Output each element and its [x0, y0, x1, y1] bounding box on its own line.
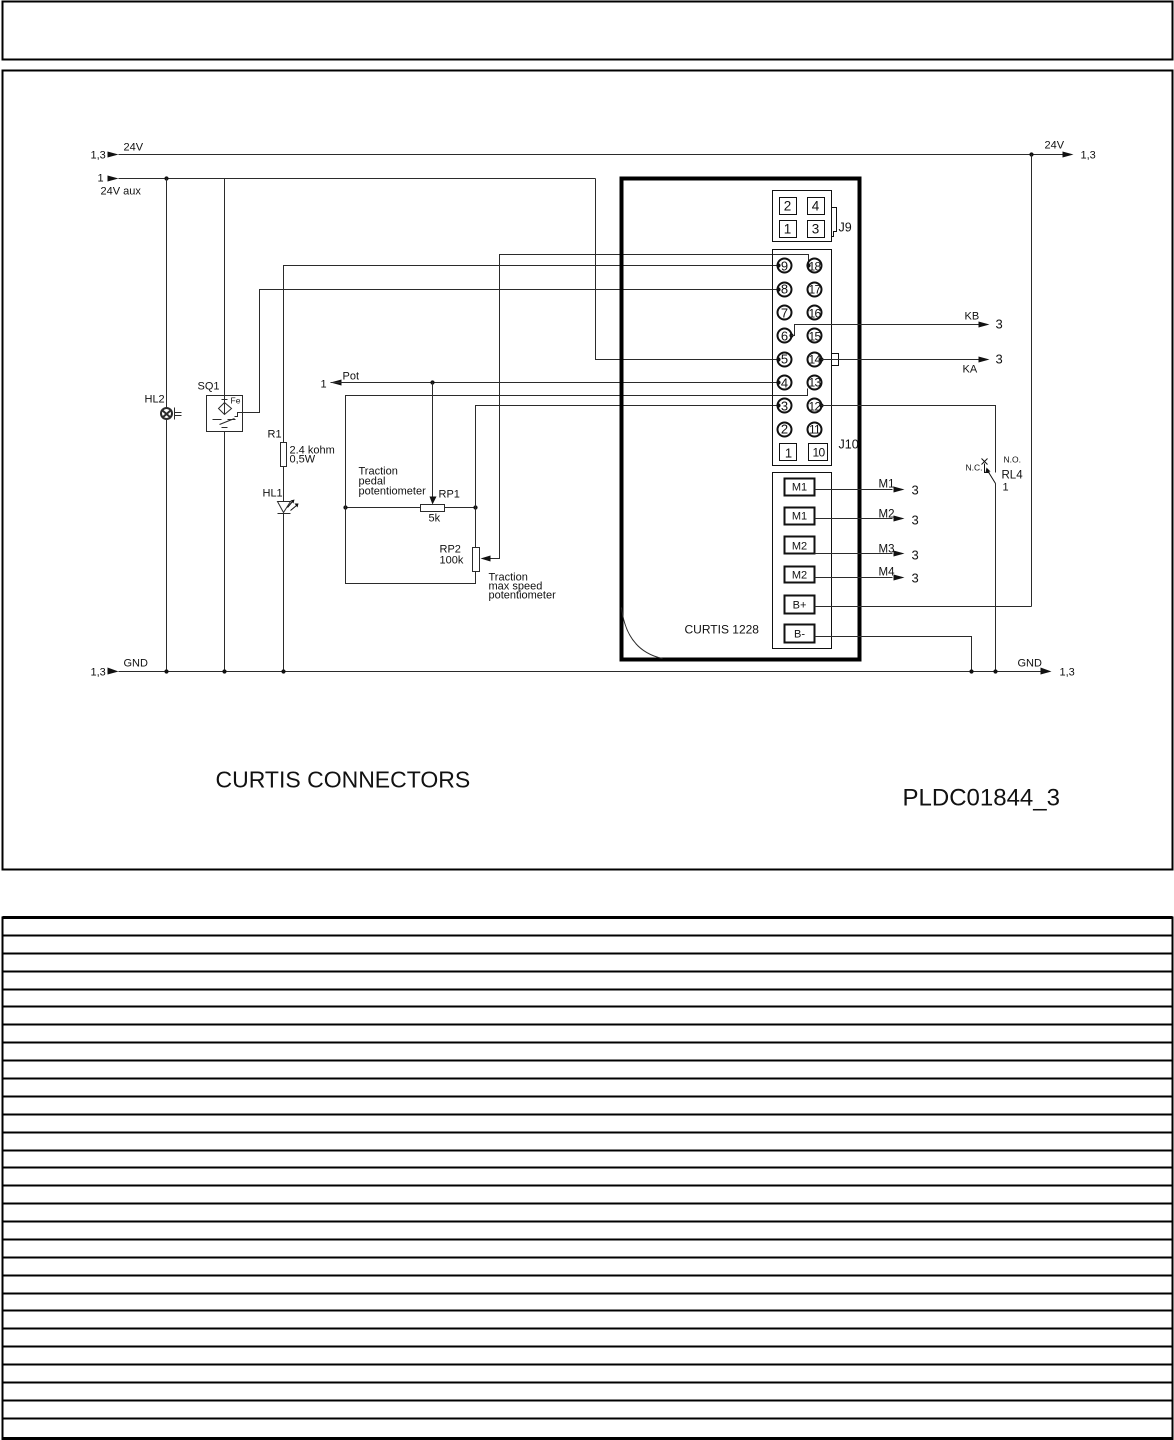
svg-text:CURTIS 1228: CURTIS 1228: [685, 623, 760, 637]
pin J10-5: [778, 353, 792, 367]
pin J10-4: [778, 376, 792, 390]
svg-text:3: 3: [996, 317, 1003, 332]
svg-text:1,3: 1,3: [91, 150, 106, 162]
wire output M2: [815, 518, 893, 520]
pin J10-2: [778, 423, 792, 437]
svg-text:M3: M3: [879, 544, 895, 556]
svg-text:16: 16: [809, 307, 822, 321]
wire B- to GND: [815, 637, 972, 672]
pin J9-4: [808, 198, 825, 215]
svg-text:13: 13: [809, 376, 822, 390]
svg-text:HL2: HL2: [145, 394, 165, 406]
svg-text:0,5W: 0,5W: [290, 454, 316, 466]
pin J10-14: [808, 353, 822, 367]
svg-text:1: 1: [784, 222, 792, 237]
wire B+: [815, 606, 1032, 608]
junction HL2/GND: [164, 669, 168, 673]
svg-text:HL1: HL1: [263, 488, 283, 500]
wire output M4: [815, 577, 893, 579]
svg-text:3: 3: [812, 222, 820, 237]
lamp HL2: [161, 408, 172, 419]
svg-text:B-: B-: [794, 629, 805, 641]
svg-text:B+: B+: [793, 600, 807, 612]
terminal M2 box: [785, 537, 815, 554]
svg-text:J9: J9: [839, 221, 852, 235]
pin J10-9: [778, 259, 792, 273]
svg-text:3: 3: [912, 483, 919, 498]
wire R1 to HL1: [283, 467, 285, 502]
svg-text:potentiometer: potentiometer: [489, 590, 557, 602]
wire pin12 to RL4: [822, 406, 996, 473]
wire SQ1 to pin8: [243, 290, 778, 413]
pin J9-2: [780, 198, 797, 215]
junction RL4/GND: [993, 669, 997, 673]
terminal M1 box: [785, 479, 815, 496]
pin J10-11: [808, 423, 822, 437]
svg-text:6: 6: [781, 329, 788, 344]
wire RP2 wiper from pin18: [485, 255, 809, 559]
svg-text:PLDC01844_3: PLDC01844_3: [903, 785, 1060, 812]
node 24V rail: [119, 154, 1063, 156]
svg-text:R1: R1: [268, 429, 282, 441]
svg-text:2: 2: [781, 422, 788, 437]
svg-text:3: 3: [912, 548, 919, 563]
svg-text:RL4: RL4: [1002, 470, 1024, 482]
svg-text:M1: M1: [792, 511, 807, 523]
svg-text:1: 1: [98, 173, 104, 185]
lamp holder contact: [174, 408, 176, 420]
svg-text:1,3: 1,3: [1081, 150, 1096, 162]
wire B+ riser: [1031, 155, 1033, 607]
pin junction dots: [776, 263, 780, 267]
svg-text:M1: M1: [879, 479, 895, 491]
resistor R1: [281, 443, 287, 467]
svg-text:Pot: Pot: [343, 371, 360, 383]
svg-text:4: 4: [812, 199, 820, 214]
junction HL2 branch: [164, 176, 168, 180]
svg-text:CURTIS CONNECTORS: CURTIS CONNECTORS: [216, 767, 471, 793]
pin J9-3: [808, 221, 825, 238]
svg-text:Fe: Fe: [231, 396, 241, 406]
pin J10-1: [780, 444, 797, 461]
connector J10 key tab: [832, 354, 839, 366]
wire KB from pin6: [792, 325, 979, 336]
svg-text:3: 3: [912, 571, 919, 586]
terminal B+ box: [785, 596, 815, 614]
svg-text:potentiometer: potentiometer: [359, 486, 427, 498]
junction SQ1/GND: [222, 669, 226, 673]
wire RP1 wiper: [432, 383, 434, 501]
wire pin13 net top: [346, 389, 808, 584]
junction Pot/RP1 wiper: [430, 380, 434, 384]
svg-text:100k: 100k: [440, 555, 464, 567]
wire pin3 to RP2: [476, 406, 778, 548]
pin J10-15: [808, 329, 822, 343]
svg-text:24V aux: 24V aux: [101, 186, 142, 198]
wire SQ1 top lead: [224, 179, 226, 396]
svg-text:M4: M4: [879, 567, 896, 579]
svg-text:GND: GND: [1018, 658, 1043, 670]
svg-text:1: 1: [785, 446, 792, 461]
svg-text:1: 1: [1003, 482, 1009, 494]
svg-text:9: 9: [781, 259, 788, 274]
connector J9 key tab: [832, 208, 837, 237]
terminal M2 box: [785, 567, 815, 583]
svg-text:J10: J10: [839, 438, 859, 452]
svg-text:1,3: 1,3: [91, 667, 106, 679]
svg-text:SQ1: SQ1: [198, 381, 220, 393]
wire HL1 to GND: [283, 514, 285, 672]
svg-text:N.O.: N.O.: [1004, 455, 1021, 465]
wire RP1 left lead: [346, 507, 421, 509]
pin J10-16: [808, 306, 822, 320]
svg-text:17: 17: [809, 283, 822, 297]
svg-text:4: 4: [781, 376, 788, 391]
svg-text:8: 8: [781, 282, 788, 297]
pin J10-17: [808, 283, 822, 297]
connector M/B column: [773, 473, 832, 649]
connector J9: [773, 191, 832, 242]
pin J9-1: [780, 221, 797, 238]
wire HL2 branch lower: [166, 420, 168, 672]
wire 24Vaux to pin5: [596, 179, 778, 360]
potentiometer RP2: [473, 548, 480, 572]
svg-text:5k: 5k: [429, 513, 441, 525]
pin J10-12: [808, 399, 822, 413]
connector J10: [773, 250, 832, 466]
pin J10-18: [808, 259, 822, 273]
junction HL1/GND: [281, 669, 285, 673]
controller corner arc: [622, 608, 663, 659]
pin J10-13: [808, 376, 822, 390]
wire output M1: [815, 489, 893, 491]
svg-text:10: 10: [813, 446, 826, 460]
potentiometer RP1: [421, 505, 445, 512]
node GND rail: [119, 671, 1041, 673]
pin J10-10: [809, 444, 828, 461]
svg-text:M2: M2: [792, 570, 807, 582]
node 24V aux rail: [119, 178, 596, 180]
svg-text:M1: M1: [792, 482, 807, 494]
wire output M3: [815, 553, 893, 555]
svg-text:5: 5: [781, 352, 788, 367]
svg-text:1,3: 1,3: [1060, 667, 1075, 679]
svg-text:KA: KA: [963, 364, 978, 376]
svg-text:GND: GND: [124, 658, 149, 670]
junction 24V/B+: [1029, 152, 1033, 156]
wire RL4 to GND: [995, 484, 997, 672]
svg-text:15: 15: [809, 330, 822, 344]
wire SQ1 bottom lead: [224, 432, 226, 672]
wire KA from pin14: [822, 359, 979, 361]
svg-text:24V: 24V: [1045, 140, 1065, 152]
pin J10-6: [778, 329, 792, 343]
svg-text:M2: M2: [792, 541, 807, 553]
wire RP1 right lead: [445, 507, 476, 509]
svg-text:3: 3: [996, 352, 1003, 367]
pin J10-8: [778, 283, 792, 297]
svg-text:KB: KB: [965, 311, 980, 323]
pin J10-3: [778, 399, 792, 413]
svg-text:N.C.: N.C.: [966, 463, 983, 473]
terminal B- box: [785, 625, 815, 643]
controller CURTIS 1228 box: [622, 179, 860, 660]
svg-text:M2: M2: [879, 509, 895, 521]
svg-text:1: 1: [321, 379, 327, 391]
terminal M1 box: [785, 508, 815, 525]
svg-text:RP1: RP1: [439, 489, 460, 501]
svg-text:18: 18: [809, 260, 822, 274]
svg-text:3: 3: [781, 399, 788, 414]
wire pin9 to R1: [284, 266, 778, 443]
svg-text:24V: 24V: [124, 142, 144, 154]
svg-text:7: 7: [781, 306, 788, 321]
svg-text:3: 3: [912, 513, 919, 528]
relay contact RL4: [988, 471, 996, 484]
pin J10-7: [778, 306, 792, 320]
svg-text:2: 2: [784, 199, 792, 214]
switch SQ1: [207, 396, 243, 432]
wire HL2 branch upper: [166, 179, 168, 409]
svg-text:12: 12: [809, 400, 822, 414]
junction B-/GND: [969, 669, 973, 673]
svg-text:11: 11: [809, 423, 821, 437]
